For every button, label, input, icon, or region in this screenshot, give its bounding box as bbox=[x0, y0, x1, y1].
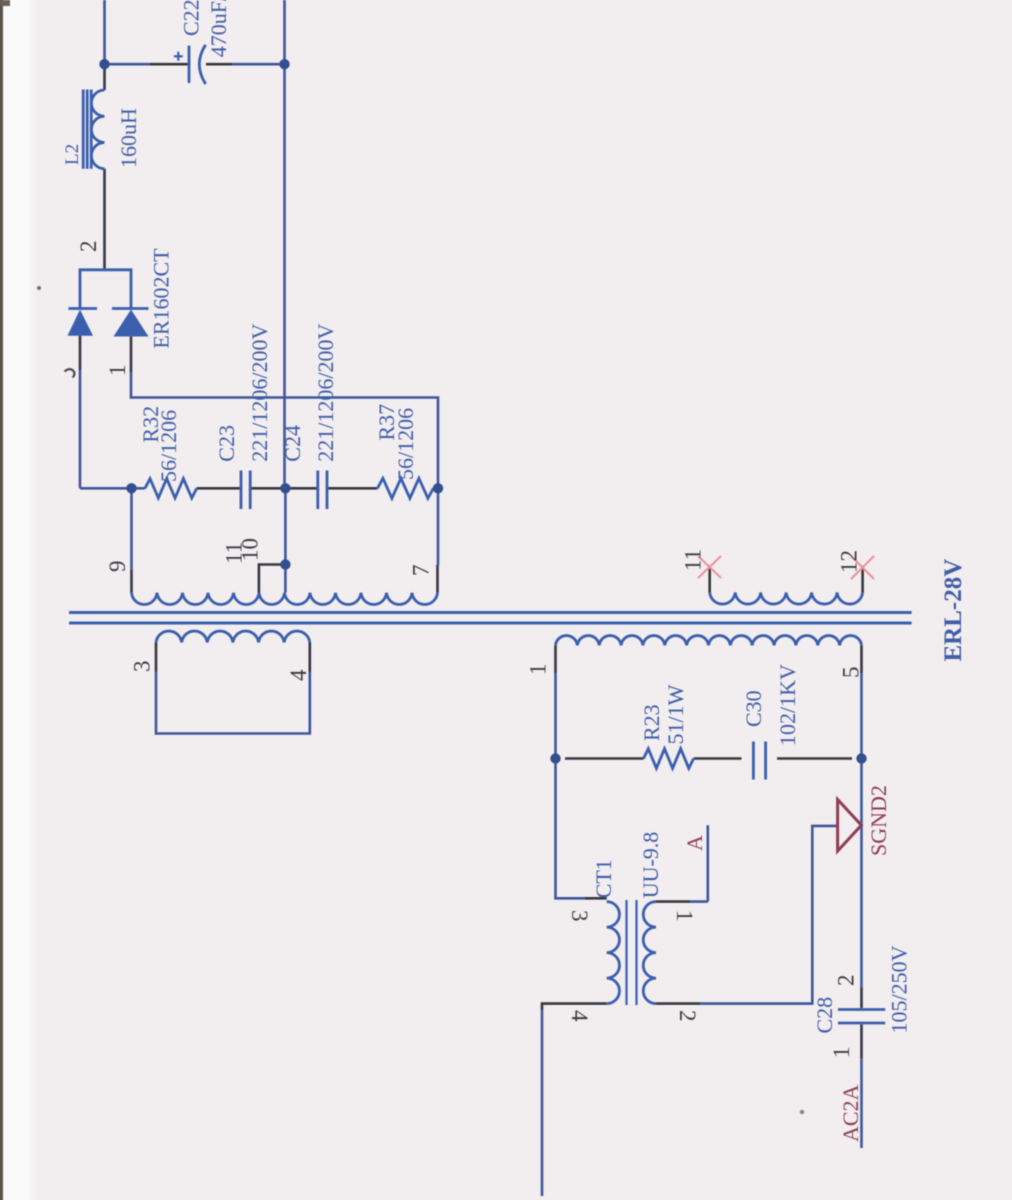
svg-text:221/1206/200V: 221/1206/200V bbox=[313, 323, 338, 461]
svg-text:CT1: CT1 bbox=[591, 859, 616, 898]
svg-text:221/1206/200V: 221/1206/200V bbox=[247, 323, 272, 461]
svg-text:C28: C28 bbox=[812, 997, 837, 1034]
svg-text:1: 1 bbox=[829, 1047, 854, 1059]
svg-text:11: 11 bbox=[681, 549, 706, 571]
svg-text:2: 2 bbox=[76, 241, 101, 253]
svg-text:3: 3 bbox=[130, 661, 155, 673]
svg-text:C22: C22 bbox=[179, 0, 204, 36]
svg-text:AC2A: AC2A bbox=[838, 1084, 863, 1142]
svg-text:C23: C23 bbox=[214, 425, 239, 462]
svg-text:R23: R23 bbox=[639, 704, 664, 741]
svg-text:5: 5 bbox=[839, 667, 864, 679]
svg-text:ERL-28V: ERL-28V bbox=[940, 559, 967, 662]
svg-text:A: A bbox=[682, 835, 707, 851]
svg-text:1: 1 bbox=[105, 365, 130, 377]
svg-text:51/1W: 51/1W bbox=[663, 684, 688, 744]
svg-text:2: 2 bbox=[675, 1010, 700, 1022]
svg-text:1: 1 bbox=[672, 910, 697, 922]
svg-text:3: 3 bbox=[567, 910, 592, 922]
svg-text:56/1206: 56/1206 bbox=[156, 410, 181, 482]
svg-text:10: 10 bbox=[238, 538, 263, 561]
svg-text:4: 4 bbox=[567, 1010, 592, 1022]
svg-text:470uF/50V: 470uF/50V bbox=[206, 0, 231, 57]
svg-text:160uH: 160uH bbox=[116, 108, 141, 168]
svg-text:L2: L2 bbox=[62, 144, 83, 165]
svg-text:C24: C24 bbox=[280, 425, 305, 462]
svg-text:56/1206: 56/1206 bbox=[393, 408, 418, 480]
svg-text:9: 9 bbox=[105, 561, 130, 573]
svg-text:7: 7 bbox=[409, 565, 434, 577]
svg-text:ER1602CT: ER1602CT bbox=[149, 248, 174, 349]
svg-text:UU-9.8: UU-9.8 bbox=[638, 832, 663, 899]
svg-text:12: 12 bbox=[837, 550, 862, 573]
svg-text:1: 1 bbox=[526, 664, 551, 676]
svg-text:105/250V: 105/250V bbox=[887, 945, 912, 1033]
svg-text:2: 2 bbox=[834, 975, 859, 987]
svg-text:SGND2: SGND2 bbox=[866, 785, 891, 856]
svg-text:C30: C30 bbox=[741, 690, 766, 727]
svg-text:4: 4 bbox=[286, 669, 311, 681]
svg-text:102/1KV: 102/1KV bbox=[775, 664, 800, 746]
